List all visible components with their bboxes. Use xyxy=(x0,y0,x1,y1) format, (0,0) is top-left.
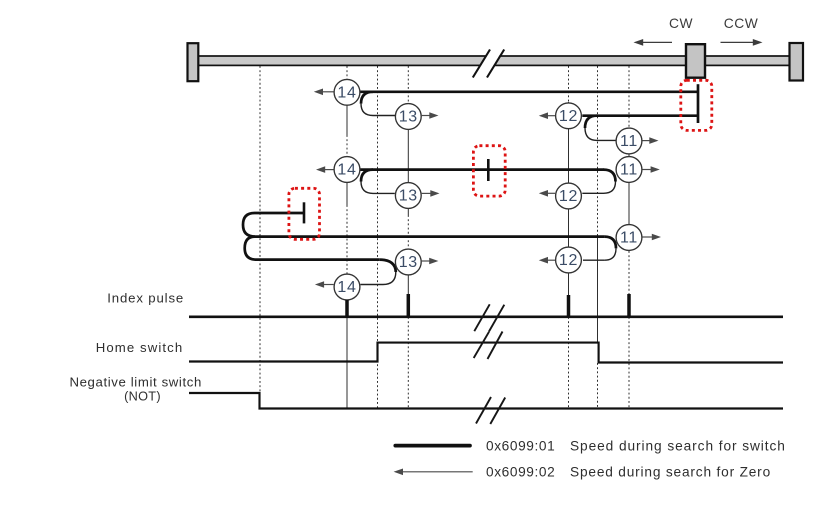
wire: reference line at home-switch falling edge x=597.5 xyxy=(597,66,599,236)
wire: reference line column x=568.5 (method 12 column) xyxy=(568,66,570,102)
svg-text:14: 14 xyxy=(337,84,356,101)
svg-text:12: 12 xyxy=(559,108,578,125)
wire: thick search line L2 y=115.7 xyxy=(582,114,698,117)
wire: negative limit switch waveform xyxy=(189,393,783,409)
node: red dashed home-position box 3 (left) xyxy=(289,188,320,239)
node: method 11 circle group2 xyxy=(616,157,660,183)
svg-text:14: 14 xyxy=(337,279,356,296)
svg-text:11: 11 xyxy=(620,133,638,150)
node: index pulse at x=568.5 xyxy=(567,295,571,317)
wire: thin zero-search line to circle 13 xyxy=(373,115,395,117)
wire: thin zero-search line back to circle 12 group2 xyxy=(582,192,603,194)
node: left end stop block xyxy=(188,43,199,81)
wire: u-turn right end group3 (thick to thin) xyxy=(605,237,616,249)
wire: thick search line y=169.6 xyxy=(360,168,604,171)
wire: CW direction arrow (left) xyxy=(642,41,672,43)
wire: reference line column x=347 (method 14 column) xyxy=(346,66,348,79)
svg-text:0x6099:02: 0x6099:02 xyxy=(486,465,555,480)
node: method 11 circle group1 xyxy=(616,128,658,154)
wire: dashed reference line at NOT switch position x=260 xyxy=(259,66,261,393)
node: rail break gap xyxy=(474,49,504,79)
svg-text:13: 13 xyxy=(399,254,418,271)
node: red dashed home-position box 2 (middle) xyxy=(473,146,505,196)
signal labels xyxy=(69,290,201,403)
wire: thick row C xyxy=(256,258,379,261)
node: method 12 circle group1 xyxy=(539,103,582,129)
node: index pulse at x=347 xyxy=(345,300,349,317)
node: right end stop block xyxy=(790,43,804,81)
wire: thin zero-search line to circle 11 xyxy=(597,139,616,141)
wire: dashed reference line at home-switch rising edge x=377.5 xyxy=(377,66,379,409)
legend xyxy=(394,439,786,480)
wire: u-turn right end group2 (thick to thin) xyxy=(604,170,616,182)
wire: index pulse break slashes xyxy=(474,304,489,331)
axis rail assembly xyxy=(188,16,804,81)
wire: rail bar xyxy=(192,56,792,65)
node: legend thin zero-speed arrow xyxy=(402,471,473,473)
wire: thick row A to home tick 3 xyxy=(255,212,305,215)
node: home switch cam block xyxy=(686,44,705,77)
svg-text:CW: CW xyxy=(669,16,693,31)
svg-text:Home switch: Home switch xyxy=(96,340,184,355)
node: home position tick 1 xyxy=(697,84,700,123)
svg-text:14: 14 xyxy=(337,162,356,179)
node: method 11 circle group3 xyxy=(616,225,661,251)
node: home position tick 3 xyxy=(303,202,306,223)
wire: thin zero-search line back to circle 12 group3 xyxy=(583,259,605,261)
wire: thin zero-search line to circle 13 group2 xyxy=(373,192,395,194)
trajectory group 3 (start left of NOT limit switch) xyxy=(243,202,616,284)
node: method 13 circle group3 xyxy=(395,249,438,275)
wire: home switch break slashes xyxy=(474,332,489,358)
wire: thick search line L1 y=91.8 xyxy=(360,90,698,93)
svg-text:Speed during search for switch: Speed during search for switch xyxy=(570,439,786,454)
svg-text:0x6099:01: 0x6099:01 xyxy=(486,439,555,454)
wire: NOT break slashes xyxy=(476,397,491,424)
wire: rail break slash 2 xyxy=(487,50,504,78)
wire: reference line column x=629 (method 11 column) xyxy=(628,66,630,128)
svg-text:Index pulse: Index pulse xyxy=(107,290,184,305)
wire: rail break slash 1 xyxy=(473,50,490,78)
svg-text:13: 13 xyxy=(399,109,418,126)
wire: index pulse baseline xyxy=(189,315,783,318)
wire: thin row D back to circle 14 group3 xyxy=(361,284,384,286)
wire: hairpin turn B-C at NOT limit xyxy=(245,237,256,260)
svg-text:12: 12 xyxy=(559,188,578,205)
node: method 14 circle group3 xyxy=(315,274,360,300)
svg-text:11: 11 xyxy=(620,230,638,247)
trajectory group 1 (start right of home switch) xyxy=(360,84,698,140)
node: method 14 circle group2 xyxy=(316,157,360,183)
wire: CCW direction arrow (right) xyxy=(721,41,755,43)
node: method 13 circle group1 xyxy=(395,104,438,130)
wire: home switch waveform xyxy=(189,343,783,363)
node: method 12 circle group3 xyxy=(539,247,582,273)
signal waveforms xyxy=(189,294,783,424)
node: index pulse at x=408.3 xyxy=(407,294,411,317)
wire: u-turn left group2 (thick to thin) xyxy=(361,170,373,182)
svg-text:Negative limit switch: Negative limit switch xyxy=(69,375,201,390)
trajectory group 2 (start between switches) xyxy=(360,159,616,193)
node: method 12 circle group2 xyxy=(539,183,582,209)
wire: reference line column x=408.3 (method 13 column) xyxy=(407,66,409,103)
wire: u-turn row C down to row D (thick to thin) xyxy=(379,260,396,272)
wire: u-turn right side group1 (thick to thin) xyxy=(585,116,597,128)
svg-text:12: 12 xyxy=(559,252,578,269)
node: red dashed home-position box 1 (top right) xyxy=(681,80,712,130)
svg-text:13: 13 xyxy=(399,188,418,205)
svg-text:11: 11 xyxy=(620,162,638,179)
svg-text:(NOT): (NOT) xyxy=(124,390,161,404)
numbered method circles and direction arrows xyxy=(314,79,661,300)
node: legend thick speed line xyxy=(395,444,470,448)
node: method 13 circle group2 xyxy=(395,183,439,209)
wire: u-turn left (thick to thin) group1 xyxy=(361,92,373,104)
node: method 14 circle group1 xyxy=(314,79,360,105)
wire: hairpin turn A-B at NOT limit xyxy=(243,213,255,237)
node: index pulse at x=629 xyxy=(627,294,631,317)
wire: thick row B xyxy=(255,235,605,238)
svg-text:Speed during search for Zero: Speed during search for Zero xyxy=(570,465,771,480)
node: home position tick 2 xyxy=(487,159,490,181)
svg-text:CCW: CCW xyxy=(724,16,758,31)
vertical reference grid lines xyxy=(260,66,629,409)
